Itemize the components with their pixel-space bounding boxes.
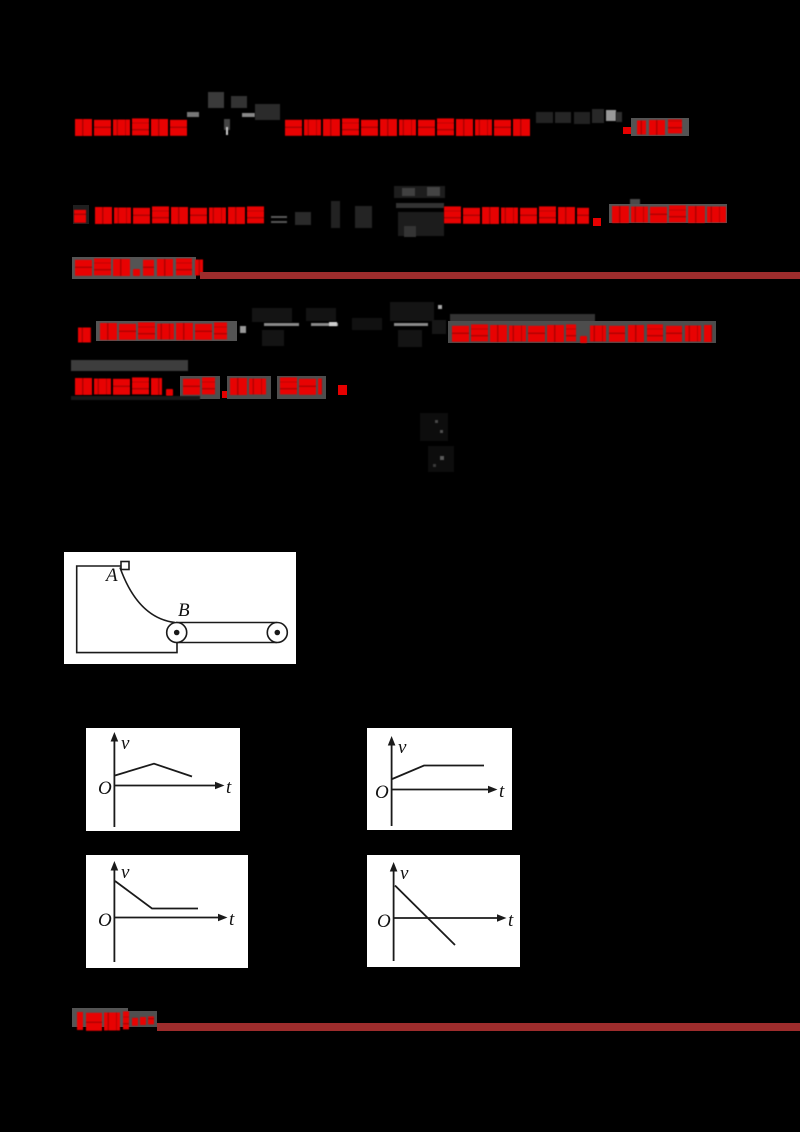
v-t curve: fall then constant (115, 881, 198, 909)
line 4: red item mark (78, 327, 94, 342)
t axis (392, 789, 491, 791)
svg-text:v: v (398, 737, 407, 758)
line 4: gray band above right run (450, 314, 595, 322)
platform outline wall and base (77, 566, 177, 653)
svg-text:O: O (377, 911, 391, 932)
svg-text:O: O (98, 910, 112, 931)
svg-text:A: A (104, 565, 118, 586)
line 3: red text on highlight (75, 259, 203, 276)
line 5: faint strip below left run (71, 396, 200, 400)
line 1: formula ghost 2 (536, 112, 553, 123)
answer line: dark red underline to edge (157, 1023, 800, 1031)
svg-text:t: t (229, 909, 235, 930)
v-t curve: rise then constant (392, 766, 484, 780)
line 4: gray highlight right + red text (448, 321, 716, 343)
t axis (114, 917, 221, 919)
graph D box (bottom-right) (367, 855, 520, 967)
answer line: red bracket label (77, 1012, 129, 1030)
answer line: gray highlight boxes (72, 1008, 128, 1027)
v axis (113, 868, 115, 962)
figure: white panel with track and conveyor (64, 552, 296, 664)
belt top and bottom lines (176, 622, 277, 624)
line 1: red text run 2 (285, 119, 532, 136)
svg-text:t: t (508, 910, 514, 931)
line 4: gray highlight left + red text (96, 321, 237, 341)
svg-text:v: v (400, 863, 409, 884)
v axis (393, 869, 395, 961)
graph A box (top-left) (86, 728, 240, 831)
line 2: small red item mark (73, 205, 89, 224)
line 3: gray highlight box (72, 257, 196, 279)
left pulley (167, 623, 187, 643)
svg-text:O: O (98, 778, 112, 799)
v-t curve: straight descending through axis (395, 886, 455, 946)
line 1: red comma (623, 127, 631, 134)
svg-text:t: t (499, 781, 505, 802)
line 4: formula ghost with fraction bars (240, 326, 246, 333)
graph C box (bottom-left) (86, 855, 248, 968)
v-t curve: rise then fall (115, 764, 192, 777)
line 2: gray highlight + red text run 3 (609, 204, 727, 223)
graph B box (top-right) (367, 728, 512, 830)
block at A (121, 562, 129, 570)
answer line: small red BCD (132, 1017, 154, 1025)
line 3: dark red underline to page edge (200, 272, 800, 279)
line 5: red run on black (75, 378, 176, 396)
line 2: red text run 2 (444, 207, 592, 224)
t axis (394, 917, 500, 919)
right pulley (267, 623, 287, 643)
t axis (114, 785, 218, 787)
curved track A to B (120, 568, 175, 623)
svg-text:v: v (121, 862, 130, 883)
svg-text:B: B (178, 600, 190, 621)
faint mid-page fraction ghost (420, 413, 448, 441)
line 2: formula ghost (friction work equation) (271, 216, 287, 218)
svg-text:O: O (375, 782, 389, 803)
svg-text:t: t (226, 777, 232, 798)
line 1: formula ghost cluster (fraction v0^2/2a) (208, 92, 224, 108)
line 2: red text run 1 (95, 207, 266, 224)
line 5: gray band above left (71, 360, 188, 371)
line 1: gray highlight box + red score text (631, 118, 689, 136)
v axis (113, 739, 115, 827)
svg-text:v: v (121, 733, 130, 754)
line 1: red text run 1 (75, 119, 189, 136)
line 2: small gray tab above (630, 199, 640, 205)
v axis (391, 743, 393, 826)
line 2: red comma (593, 218, 601, 226)
line 5: gray highlight segments + red (180, 376, 220, 399)
